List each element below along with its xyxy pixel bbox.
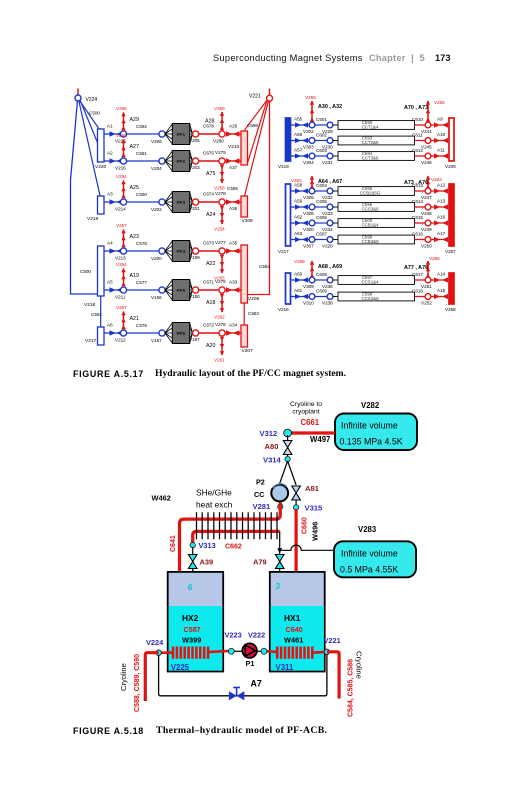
svg-text:V223: V223 xyxy=(225,631,242,640)
wire C672 xyxy=(199,332,219,334)
node V251 xyxy=(425,277,431,283)
coil in HX1 xyxy=(265,647,327,659)
wire into conductor box xyxy=(333,206,338,208)
node V234 xyxy=(327,220,333,226)
svg-text:A55: A55 xyxy=(294,117,303,122)
svg-text:V238: V238 xyxy=(322,301,333,306)
coil block PF1 xyxy=(172,124,189,145)
svg-text:P2: P2 xyxy=(256,478,265,487)
svg-text:V262: V262 xyxy=(214,315,225,320)
node V197 xyxy=(193,330,199,336)
svg-text:C660: C660 xyxy=(302,517,309,534)
figure A.5.17 hydraulic schematic xyxy=(71,89,457,363)
wire A26 to return manifold xyxy=(225,133,241,135)
node V202 xyxy=(159,199,165,205)
row PF4 piping xyxy=(104,223,241,281)
red supply arrow V266 A27 xyxy=(123,140,125,157)
svg-text:V282: V282 xyxy=(361,401,380,410)
wire A1 manifold to V215 xyxy=(104,133,124,135)
svg-text:A17: A17 xyxy=(437,231,446,236)
CC row CCS2&5 xyxy=(291,288,450,306)
svg-text:C591: C591 xyxy=(136,151,147,156)
supply bracket V216 xyxy=(278,273,291,312)
wire from V221 to V210 bottom xyxy=(248,101,268,164)
svg-text:C591: C591 xyxy=(91,312,102,317)
row PF1 piping xyxy=(104,106,241,145)
svg-text:PF3: PF3 xyxy=(177,200,186,205)
svg-text:W462: W462 xyxy=(152,494,171,503)
manifold V218 xyxy=(84,246,104,308)
svg-text:C576: C576 xyxy=(136,323,147,328)
svg-text:A1: A1 xyxy=(107,124,113,129)
svg-text:V310: V310 xyxy=(303,301,314,306)
svg-text:V276: V276 xyxy=(215,322,226,327)
svg-text:V255: V255 xyxy=(305,95,316,100)
return bracket V257 xyxy=(445,184,456,254)
wire P1 to V222 xyxy=(257,650,265,652)
svg-text:C601: C601 xyxy=(316,117,327,122)
wire A3 manifold to V214 xyxy=(104,201,124,203)
wire A14 to bracket xyxy=(431,279,449,281)
wire A16 to bracket xyxy=(431,222,449,224)
svg-text:A25: A25 xyxy=(130,185,139,191)
svg-text:A56: A56 xyxy=(294,132,303,137)
node V312 xyxy=(260,429,292,438)
svg-text:A39: A39 xyxy=(200,558,214,567)
node V203 xyxy=(193,158,199,164)
svg-text:CC: CC xyxy=(254,490,264,499)
node V252 xyxy=(425,294,431,300)
svg-text:V204: V204 xyxy=(151,166,162,171)
node V236 xyxy=(327,277,333,283)
svg-text:CCS3&6: CCS3&6 xyxy=(361,207,379,212)
tank HX1 xyxy=(270,572,325,672)
manifold V209 xyxy=(241,196,253,224)
svg-text:W399: W399 xyxy=(182,636,201,645)
pipe heat exchanger bottom xyxy=(193,531,280,545)
wire C598 from V221 to V210 xyxy=(245,100,268,130)
wire A36 to return manifold xyxy=(225,201,241,203)
wire C605 xyxy=(315,206,327,208)
svg-text:A7: A7 xyxy=(251,679,262,689)
svg-text:V210: V210 xyxy=(228,144,240,150)
svg-text:A33: A33 xyxy=(229,280,238,285)
wire into conductor box xyxy=(333,296,338,298)
svg-text:A22: A22 xyxy=(206,261,215,267)
wire C674 xyxy=(199,201,219,203)
valve node V214 xyxy=(120,199,126,205)
wire C578 xyxy=(127,250,159,252)
svg-text:C673: C673 xyxy=(203,241,214,246)
svg-text:C588, C589, C590: C588, C589, C590 xyxy=(134,654,141,712)
node V229 xyxy=(327,122,333,128)
svg-text:A60: A60 xyxy=(294,272,303,277)
svg-text:V303: V303 xyxy=(303,145,314,150)
supply bracket V219 xyxy=(278,118,291,169)
node V157 xyxy=(159,330,165,336)
wire A37 to return manifold xyxy=(225,160,241,162)
node V310 xyxy=(309,294,315,300)
svg-text:C617: C617 xyxy=(412,272,423,277)
conductor CCB3&6 xyxy=(338,235,415,244)
svg-text:C672: C672 xyxy=(203,323,214,328)
svg-text:V208: V208 xyxy=(248,296,260,302)
svg-text:V311: V311 xyxy=(276,663,294,672)
svg-text:V217: V217 xyxy=(278,249,289,254)
svg-text:A59: A59 xyxy=(294,199,303,204)
svg-text:V207: V207 xyxy=(242,348,254,354)
svg-text:C500: C500 xyxy=(80,269,91,274)
svg-text:Cryoline: Cryoline xyxy=(355,651,364,679)
conductor CCT3&6 xyxy=(338,151,415,160)
red supply arrow V264 A19 xyxy=(123,269,125,286)
node V315 xyxy=(293,500,323,513)
node V224 supply xyxy=(75,95,97,103)
wire V313 to valve A39 xyxy=(192,547,194,555)
wire C595 from V221 to V209 xyxy=(245,101,269,196)
node V249 xyxy=(425,220,431,226)
svg-text:V252: V252 xyxy=(421,301,432,306)
node V245 xyxy=(425,138,431,144)
node V300 xyxy=(309,220,315,226)
node V307 xyxy=(309,237,315,243)
svg-text:V257: V257 xyxy=(116,223,127,228)
svg-text:A37: A37 xyxy=(229,165,238,170)
node V276 xyxy=(219,330,225,336)
row PF5 piping xyxy=(104,262,241,320)
caption figure A.5.17 xyxy=(72,368,74,370)
red arrow A18 at V275 xyxy=(206,294,225,320)
wire V312 to V314 xyxy=(287,435,289,459)
svg-text:C618: C618 xyxy=(412,289,423,294)
red riser arrow right xyxy=(404,175,442,188)
svg-text:C500: C500 xyxy=(89,111,100,116)
wire C592 xyxy=(127,133,159,135)
svg-text:Infinite volume: Infinite volume xyxy=(341,549,398,559)
svg-text:SHe/GHe: SHe/GHe xyxy=(196,488,232,498)
svg-text:A70 , A73: A70 , A73 xyxy=(404,105,428,111)
svg-text:C603: C603 xyxy=(316,148,327,153)
svg-text:A29: A29 xyxy=(130,117,139,123)
svg-text:V222: V222 xyxy=(248,631,265,640)
node V246 xyxy=(425,153,431,159)
svg-text:CCS2&5: CCS2&5 xyxy=(361,296,379,301)
wire A57 xyxy=(291,155,310,157)
wire A17 to bracket xyxy=(431,239,449,241)
coil block PF2 xyxy=(172,151,189,172)
svg-text:A19: A19 xyxy=(130,273,139,279)
svg-text:V300: V300 xyxy=(303,227,314,232)
svg-text:V314: V314 xyxy=(263,456,282,465)
svg-text:C661: C661 xyxy=(301,418,320,427)
wire A5 manifold to V211 xyxy=(104,289,124,291)
conductor CCB1&4 xyxy=(338,218,415,227)
valve node V212 xyxy=(120,330,126,336)
wire C612 xyxy=(415,155,426,157)
wire C576 xyxy=(127,332,159,334)
svg-text:V258: V258 xyxy=(294,259,305,264)
wire C617 xyxy=(415,279,426,281)
svg-text:V267: V267 xyxy=(116,305,127,310)
valve A7 xyxy=(229,679,262,701)
node V248 xyxy=(425,204,431,210)
svg-text:P1: P1 xyxy=(246,659,255,668)
return bracket V258 xyxy=(445,273,456,312)
svg-text:PF1: PF1 xyxy=(177,132,186,137)
svg-text:A9: A9 xyxy=(437,117,443,122)
svg-text:V315: V315 xyxy=(305,504,324,513)
svg-text:V216: V216 xyxy=(278,307,289,312)
svg-text:CCS1&4: CCS1&4 xyxy=(361,280,379,285)
node V250 xyxy=(425,237,431,243)
valve A81 xyxy=(292,484,320,500)
wire A4 manifold to V213 xyxy=(104,250,124,252)
svg-text:heat exch: heat exch xyxy=(196,500,233,510)
coil block PF6 xyxy=(172,323,189,344)
svg-text:V219: V219 xyxy=(278,164,289,169)
CC row CCT1&4 xyxy=(291,117,450,135)
node V232 xyxy=(327,188,333,194)
svg-text:V258: V258 xyxy=(214,186,225,191)
wire into conductor box xyxy=(333,239,338,241)
svg-text:A14: A14 xyxy=(437,272,446,277)
supply bracket V217 xyxy=(278,184,291,254)
svg-text:V254: V254 xyxy=(214,227,225,232)
wire A2 manifold to V216 xyxy=(104,160,124,162)
svg-text:A61: A61 xyxy=(294,288,303,293)
conductor CCT2&5 xyxy=(338,136,415,145)
svg-text:C614: C614 xyxy=(412,199,423,204)
svg-text:A27: A27 xyxy=(130,144,139,150)
svg-text:W461: W461 xyxy=(284,636,303,645)
svg-text:V231: V231 xyxy=(322,160,333,165)
svg-text:C607: C607 xyxy=(316,232,327,237)
svg-text:V157: V157 xyxy=(151,338,162,343)
node V314 xyxy=(263,456,290,465)
svg-text:A13: A13 xyxy=(437,199,446,204)
svg-text:3: 3 xyxy=(275,581,280,591)
node V228 xyxy=(327,237,333,243)
wire C593 from V224 to V219 xyxy=(79,102,101,199)
svg-text:cryoplant: cryoplant xyxy=(292,409,319,416)
wire C613 xyxy=(415,190,426,192)
coil block PF3 xyxy=(172,192,189,213)
cryoline pipe right C584 C585 C586 xyxy=(327,652,339,699)
wire A62 xyxy=(291,222,310,224)
svg-text:CCT3&6: CCT3&6 xyxy=(362,156,379,161)
CC row CCS3&6 xyxy=(291,199,450,217)
node V233 xyxy=(327,204,333,210)
coil block PF5 xyxy=(172,280,189,301)
wire C584 main red header down to V208 xyxy=(248,101,270,295)
fan lines into PF5 xyxy=(165,280,193,300)
node V230 xyxy=(327,138,333,144)
valve node V211 xyxy=(120,287,126,293)
manifold V219 xyxy=(87,196,104,222)
row PF3 piping xyxy=(104,174,241,232)
manifold V217 xyxy=(85,327,104,345)
svg-text:V244: V244 xyxy=(421,129,432,134)
svg-text:A30 , A32: A30 , A32 xyxy=(318,104,342,110)
svg-text:V302: V302 xyxy=(303,129,314,134)
wire A33 to return manifold xyxy=(225,289,241,291)
CC row CCB2&5G xyxy=(291,183,450,201)
svg-text:C604: C604 xyxy=(316,183,327,188)
wire C608 xyxy=(315,279,327,281)
wire A58 xyxy=(291,190,310,192)
valve A80 xyxy=(265,441,292,455)
svg-text:V202: V202 xyxy=(151,207,162,212)
wire C615 xyxy=(415,222,426,224)
svg-text:C611: C611 xyxy=(412,133,423,138)
node V309 xyxy=(309,277,315,283)
node V280 xyxy=(219,131,225,137)
svg-text:V201: V201 xyxy=(189,206,200,211)
svg-text:V199: V199 xyxy=(189,255,200,260)
conductor CCS1&4 xyxy=(338,275,415,284)
svg-text:V219: V219 xyxy=(87,216,99,222)
svg-text:A24: A24 xyxy=(206,212,215,218)
svg-text:C613: C613 xyxy=(412,183,423,188)
pump P1 xyxy=(242,643,257,668)
svg-text:V246: V246 xyxy=(421,160,432,165)
svg-text:V206: V206 xyxy=(151,139,162,144)
red stem above V224 xyxy=(77,89,79,96)
svg-text:V275: V275 xyxy=(215,279,226,284)
wire A79 into HX1 xyxy=(279,569,281,583)
manifold V210 xyxy=(228,131,248,165)
svg-text:V212: V212 xyxy=(115,338,126,343)
svg-text:A62: A62 xyxy=(294,215,303,220)
svg-text:Infinite volume: Infinite volume xyxy=(341,420,398,430)
svg-text:V211: V211 xyxy=(115,295,126,300)
svg-text:A11: A11 xyxy=(437,148,445,153)
wire C614 xyxy=(415,206,426,208)
wire HX2 to V223 xyxy=(234,650,243,652)
svg-text:A58: A58 xyxy=(294,183,303,188)
svg-text:CCB3&6: CCB3&6 xyxy=(361,239,379,244)
svg-text:PF6: PF6 xyxy=(177,331,186,336)
svg-text:C640: C640 xyxy=(286,625,303,634)
svg-text:C610: C610 xyxy=(412,117,423,122)
svg-text:V283: V283 xyxy=(358,525,377,534)
svg-text:V278: V278 xyxy=(215,191,226,196)
CC row CCB1&4 xyxy=(291,215,450,233)
svg-text:C662: C662 xyxy=(225,544,242,551)
CC group 2 xyxy=(278,175,456,254)
svg-text:A5: A5 xyxy=(107,280,113,285)
svg-text:C675: C675 xyxy=(203,151,214,156)
wire A10 to bracket xyxy=(431,140,449,142)
svg-text:A81: A81 xyxy=(305,484,320,493)
red arrow A24 at V278 xyxy=(206,206,225,232)
svg-text:A10: A10 xyxy=(437,132,446,137)
svg-text:V156: V156 xyxy=(151,295,162,300)
svg-text:V305: V305 xyxy=(303,195,314,200)
wire C590 xyxy=(127,201,159,203)
svg-text:V254: V254 xyxy=(116,174,127,179)
svg-text:A26: A26 xyxy=(229,124,238,129)
wire A39 into HX2 xyxy=(192,569,194,583)
wire C602 xyxy=(315,140,327,142)
svg-text:V224: V224 xyxy=(146,638,164,647)
svg-text:HX1: HX1 xyxy=(284,613,301,623)
node V302 xyxy=(309,122,315,128)
node V205 xyxy=(193,131,199,137)
svg-text:A16: A16 xyxy=(437,215,446,220)
fan lines into PF6 xyxy=(165,323,193,343)
wire A13 to bracket xyxy=(431,206,449,208)
svg-text:C641: C641 xyxy=(170,535,177,552)
wire C591 xyxy=(127,160,159,162)
svg-text:V307: V307 xyxy=(303,244,314,249)
node V238 xyxy=(327,294,333,300)
wire C678 xyxy=(199,133,219,135)
red supply arrow V256 A29 xyxy=(123,113,125,130)
conductor CCS3&6 xyxy=(338,202,415,211)
svg-text:V261: V261 xyxy=(214,358,225,363)
svg-text:A23: A23 xyxy=(130,234,139,240)
svg-text:C606: C606 xyxy=(316,215,327,220)
CC group 3 xyxy=(278,256,456,312)
fan lines into PF1 xyxy=(165,124,193,144)
wire V283 box to A79 line with hop over C660 xyxy=(280,545,334,550)
red riser arrow right xyxy=(404,100,445,122)
figure A.5.18 thermal-hydraulic model xyxy=(119,401,417,717)
node V222 xyxy=(248,631,267,655)
svg-text:V150: V150 xyxy=(189,294,200,299)
manifold V208 xyxy=(241,245,260,303)
fan lines into PF2 xyxy=(165,151,193,171)
row PF2 piping xyxy=(104,133,241,191)
node V275 xyxy=(219,287,225,293)
coil block PF4 xyxy=(172,241,189,262)
svg-text:C587: C587 xyxy=(184,625,201,634)
svg-text:V216: V216 xyxy=(115,166,126,171)
CC row CCT2&5 xyxy=(291,132,450,150)
fan lines into PF4 xyxy=(165,241,193,261)
red riser arrow left xyxy=(305,95,342,122)
svg-text:V224: V224 xyxy=(86,97,98,103)
valve A79 xyxy=(253,555,284,569)
svg-text:A68 , A69: A68 , A69 xyxy=(318,264,342,270)
svg-text:V266: V266 xyxy=(116,133,127,138)
wire A9 to bracket xyxy=(431,124,449,126)
wire A55 xyxy=(291,124,310,126)
svg-text:C598: C598 xyxy=(247,123,258,128)
svg-text:C595: C595 xyxy=(227,186,238,191)
svg-text:V259: V259 xyxy=(214,106,225,111)
wire A15 to bracket xyxy=(431,296,449,298)
svg-text:V209: V209 xyxy=(445,164,456,169)
wire A59 xyxy=(291,206,310,208)
red arrow A20 at V276 xyxy=(206,337,225,363)
red supply arrow V257 A23 xyxy=(123,230,125,247)
node V199 xyxy=(193,248,199,254)
coil in HX2 xyxy=(159,647,230,659)
svg-text:V250: V250 xyxy=(421,244,432,249)
svg-text:V306: V306 xyxy=(303,211,314,216)
heat exchanger fins W462 xyxy=(197,512,278,539)
svg-text:0.5 MPa 4.55K: 0.5 MPa 4.55K xyxy=(340,564,398,574)
pump P2 CC xyxy=(254,478,288,502)
svg-text:V309: V309 xyxy=(303,284,314,289)
svg-text:C584: C584 xyxy=(259,264,270,269)
caption figure A.5.18 xyxy=(72,725,74,727)
svg-text:C583: C583 xyxy=(248,311,259,316)
wire from V224 to V220 mid xyxy=(80,100,101,150)
svg-text:C602: C602 xyxy=(316,133,327,138)
